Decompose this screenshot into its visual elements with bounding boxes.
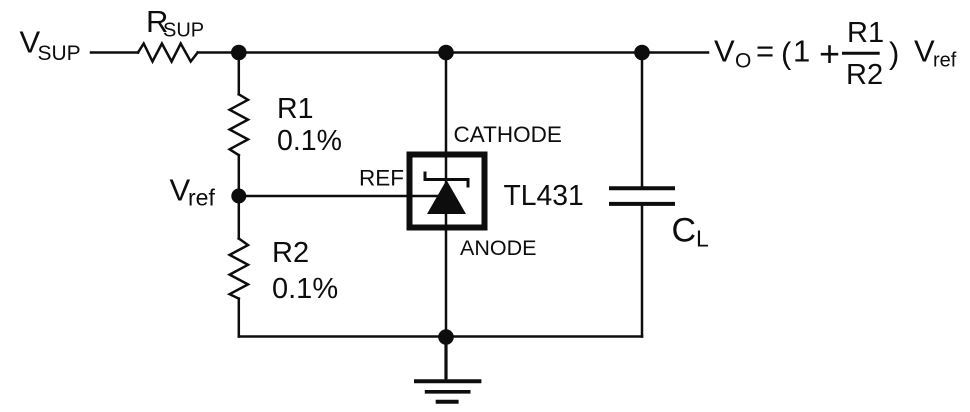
svg-text:ANODE: ANODE <box>460 236 536 260</box>
resistor R2 <box>230 239 248 299</box>
svg-text:SUP: SUP <box>38 42 81 65</box>
svg-text:ref: ref <box>188 185 215 211</box>
svg-text:0.1%: 0.1% <box>272 273 338 305</box>
node junction dots <box>231 45 650 345</box>
wire left vertical middle <box>238 155 241 238</box>
node ground <box>438 329 454 345</box>
svg-text:R1: R1 <box>847 17 884 49</box>
svg-text:0.1%: 0.1% <box>277 125 342 157</box>
resistor RSUP <box>138 44 198 62</box>
svg-text:+: + <box>819 33 840 74</box>
node cathode top <box>438 45 454 61</box>
svg-text:TL431: TL431 <box>504 179 584 211</box>
svg-text:SUP: SUP <box>163 20 204 42</box>
svg-text:CATHODE: CATHODE <box>454 122 562 147</box>
wire bottom rail <box>239 335 642 338</box>
wire left vertical upper <box>238 53 241 95</box>
svg-text:O: O <box>735 50 751 73</box>
svg-text:R2: R2 <box>846 59 883 91</box>
wire right vertical lower <box>641 204 644 337</box>
svg-text:C: C <box>672 212 697 250</box>
wire right vertical upper <box>641 53 644 189</box>
svg-text:REF: REF <box>359 166 404 191</box>
node output <box>634 45 650 61</box>
svg-text:(: ( <box>781 36 792 71</box>
ground <box>414 337 481 402</box>
svg-text:R1: R1 <box>277 93 313 125</box>
wire left vertical lower <box>238 299 241 337</box>
svg-text:1: 1 <box>793 34 810 69</box>
node after RSUP <box>231 45 247 61</box>
svg-text:): ) <box>889 36 899 71</box>
svg-text:V: V <box>714 34 735 69</box>
TL431 triangle <box>427 180 466 214</box>
formula fraction bar <box>842 52 880 55</box>
TL431 U1 body <box>410 155 485 228</box>
svg-text:=: = <box>756 34 774 69</box>
node Vref <box>231 189 246 204</box>
svg-text:R2: R2 <box>272 237 309 269</box>
wire top rail <box>91 51 138 54</box>
svg-text:V: V <box>914 34 935 69</box>
wire center vertical <box>445 53 448 381</box>
svg-text:ref: ref <box>933 50 957 72</box>
svg-text:L: L <box>696 226 709 252</box>
resistor R1 <box>230 94 248 155</box>
wire top rail continued <box>198 51 708 54</box>
wire REF <box>239 195 437 198</box>
TL431 cathode bar <box>425 172 468 188</box>
capacitor CL plates <box>609 188 675 204</box>
